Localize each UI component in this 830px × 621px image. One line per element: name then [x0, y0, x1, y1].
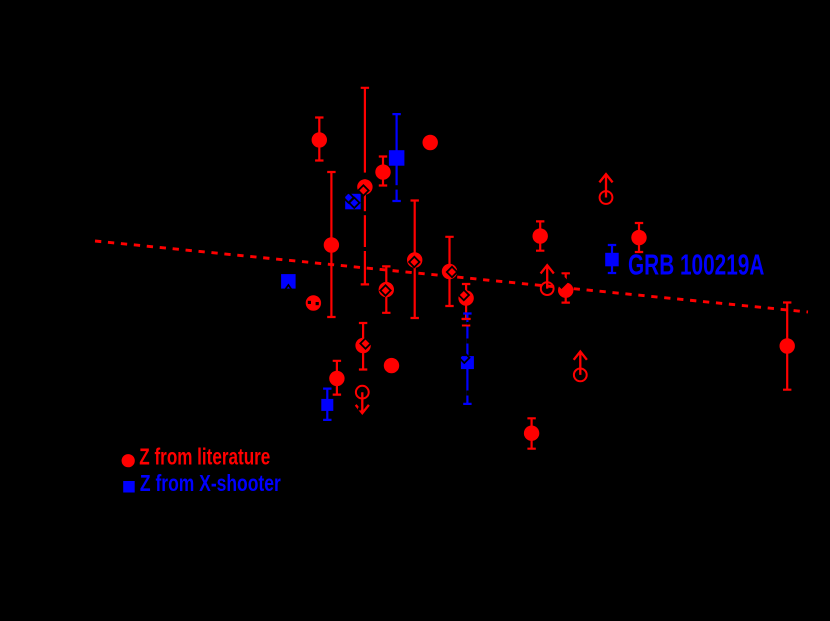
- black dash gap overlays on P3 tall error bar: [363, 173, 366, 251]
- data point P7: red circle (Z from literature): [631, 223, 646, 252]
- stray red error-bar caps crossing S5 blue bar: [462, 319, 471, 326]
- red dotted best-fit trend line: [95, 241, 808, 312]
- svg-text:GRB 100219A: GRB 100219A: [628, 249, 764, 281]
- black open diamond overlay on P11: [447, 267, 457, 277]
- data point P12: red circle (Z from literature): [458, 284, 473, 319]
- black dot marks on data point P13: [308, 301, 319, 305]
- svg-text:Z from literature: Z from literature: [139, 445, 270, 470]
- data point P5: red circle (Z from literature): [423, 135, 438, 150]
- legend marker: blue square: [123, 481, 135, 493]
- data point P4: red circle (Z from literature): [375, 157, 390, 186]
- data point S4: blue square (Z from X-shooter): [321, 389, 333, 420]
- legend marker: red circle: [122, 454, 135, 467]
- black open diamond overlay on P14: [360, 338, 370, 348]
- data point S6 (GRB 100219A): blue square (Z from X-shooter): [605, 245, 619, 273]
- black dash gap overlay on S1 blue error bar: [395, 185, 398, 189]
- data point P16: red circle (Z from literature): [329, 361, 344, 395]
- black open diamond overlay on blue square S5: [459, 353, 469, 363]
- black filled diamond overlay on P8: [554, 274, 569, 289]
- svg-text:Z from X-shooter: Z from X-shooter: [140, 472, 281, 497]
- limit L3: open red circle with up arrow: [574, 352, 587, 382]
- limit L2: open red circle with up arrow: [541, 265, 554, 295]
- data point P10: red circle (Z from literature): [407, 201, 422, 319]
- data point P8: red circle (Z from literature): [558, 273, 573, 302]
- data point P11: red circle (Z from literature): [442, 237, 457, 306]
- black notch overlays on S5 blue error bar: [466, 322, 468, 396]
- data point P9: red circle (Z from literature): [379, 266, 394, 312]
- black open diamond overlay on P9: [380, 285, 390, 295]
- limit L1: open red circle with up arrow: [599, 174, 612, 204]
- data point S3: blue square (Z from X-shooter): [281, 274, 296, 289]
- data point P18: red circle (Z from literature): [780, 303, 795, 390]
- data point P1: red circle (Z from literature): [312, 118, 327, 161]
- black chevron overlay on blue square S3: [285, 285, 293, 290]
- data point P2: red circle (Z from literature): [324, 172, 339, 317]
- data point P17: red circle (Z from literature): [524, 418, 539, 448]
- black open diamond overlay on P10: [409, 257, 419, 267]
- black open diamond overlay on blue square S2: [349, 198, 359, 208]
- data point S2: blue square (Z from X-shooter): [345, 194, 361, 210]
- data point P3: red circle (Z from literature): [357, 88, 372, 285]
- data point P14: red circle (Z from literature): [355, 323, 370, 370]
- black open diamond overlay on blue square S2 corner: [343, 192, 353, 202]
- black open diamond overlay on P12: [459, 290, 469, 300]
- data point S5: blue square (Z from X-shooter): [461, 314, 474, 404]
- limit L4: open red circle with down arrow: [356, 386, 369, 413]
- data point P15: red circle (Z from literature): [384, 358, 399, 373]
- data point P6: red circle (Z from literature): [533, 221, 548, 250]
- data point S1: blue square (Z from X-shooter): [389, 114, 405, 201]
- data point P13: red circle (Z from literature): [306, 295, 321, 310]
- black open diamond overlay on P3: [358, 185, 368, 195]
